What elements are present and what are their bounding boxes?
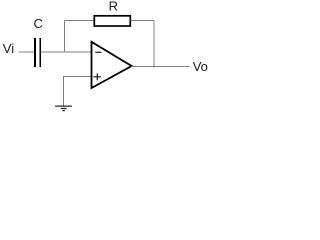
op-amp U1 (triangle) bbox=[92, 42, 132, 88]
wire node A up to resistor R bbox=[65, 20, 95, 22]
wire op-amp output to Vo bbox=[131, 66, 190, 68]
svg-text:Vo: Vo bbox=[193, 59, 208, 74]
wire Vi to capacitor C bbox=[19, 51, 36, 53]
op-amp inverting input marker (minus) bbox=[95, 51, 101, 53]
op-amp non-inverting input marker (plus) bbox=[93, 73, 101, 80]
capacitor C (plates) bbox=[35, 38, 40, 67]
wire capacitor to inverting input (node A junction at x=64.5) bbox=[40, 51, 92, 53]
wire feedback left vertical bbox=[64, 21, 66, 53]
wire feedback right vertical bbox=[153, 21, 155, 68]
svg-text:Vi: Vi bbox=[3, 41, 14, 56]
wire resistor R to output node bbox=[130, 20, 154, 22]
svg-text:R: R bbox=[109, 0, 118, 13]
ground bbox=[55, 106, 72, 111]
wire non-inverting input to ground bbox=[64, 77, 93, 106]
svg-text:C: C bbox=[34, 16, 43, 31]
resistor R bbox=[94, 16, 130, 26]
